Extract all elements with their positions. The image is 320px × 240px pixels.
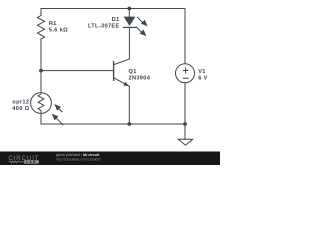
wire ground stub xyxy=(184,124,186,139)
svg-text:D1: D1 xyxy=(112,17,120,23)
wire emitter down xyxy=(128,86,130,124)
voltage source V1 plus minus xyxy=(183,68,189,79)
svg-text:5.6 kΩ: 5.6 kΩ xyxy=(49,28,68,34)
photoresistor opr12 body xyxy=(31,93,52,114)
node junction dot emitter-bottom rail xyxy=(127,122,131,126)
node junction dot LED top xyxy=(127,7,131,11)
wire right rail bottom xyxy=(184,83,186,124)
wire left stub above resistor xyxy=(40,9,42,16)
voltage source V1 body xyxy=(176,64,195,83)
wire top rail xyxy=(41,8,185,10)
transistor Q1 emitter arrowhead xyxy=(123,82,129,86)
svg-text:LAB: LAB xyxy=(26,160,37,164)
svg-text:opr12: opr12 xyxy=(12,99,29,105)
transistor Q1 collector line xyxy=(114,59,130,65)
svg-text:LTL-307EE: LTL-307EE xyxy=(88,24,120,30)
watermark bar xyxy=(0,152,220,166)
node junction dot base-left rail xyxy=(39,69,43,73)
resistor R1 xyxy=(37,16,44,39)
svg-text:6 V: 6 V xyxy=(198,76,207,82)
svg-text:V1: V1 xyxy=(198,69,206,75)
wire right rail top xyxy=(184,9,186,64)
wire LED column top xyxy=(128,9,130,17)
svg-text:http://circuitlab.com/c/3ak52: http://circuitlab.com/c/3ak52 xyxy=(56,157,101,161)
svg-text:400 Ω: 400 Ω xyxy=(12,106,29,112)
photoresistor light arrows xyxy=(53,105,64,125)
svg-text:2N3904: 2N3904 xyxy=(129,76,151,82)
LED D1 triangle xyxy=(124,17,136,26)
wire bottom rail xyxy=(41,123,185,125)
transistor Q1 emitter line xyxy=(114,78,130,87)
LED D1 light arrows xyxy=(136,17,147,36)
ground xyxy=(178,139,192,145)
watermark CircuitLab logo xyxy=(8,155,39,164)
LED D1 cathode bar xyxy=(123,26,136,28)
node junction dot ground xyxy=(183,122,187,126)
wire LED to collector xyxy=(128,27,130,59)
wire base to left rail xyxy=(41,70,114,72)
wire below photoresistor xyxy=(40,113,42,124)
wire left rail resistor to photoresistor xyxy=(40,39,42,93)
transistor Q1 base bar xyxy=(113,62,115,81)
svg-text:Q1: Q1 xyxy=(129,69,137,75)
svg-text:R1: R1 xyxy=(49,21,57,27)
